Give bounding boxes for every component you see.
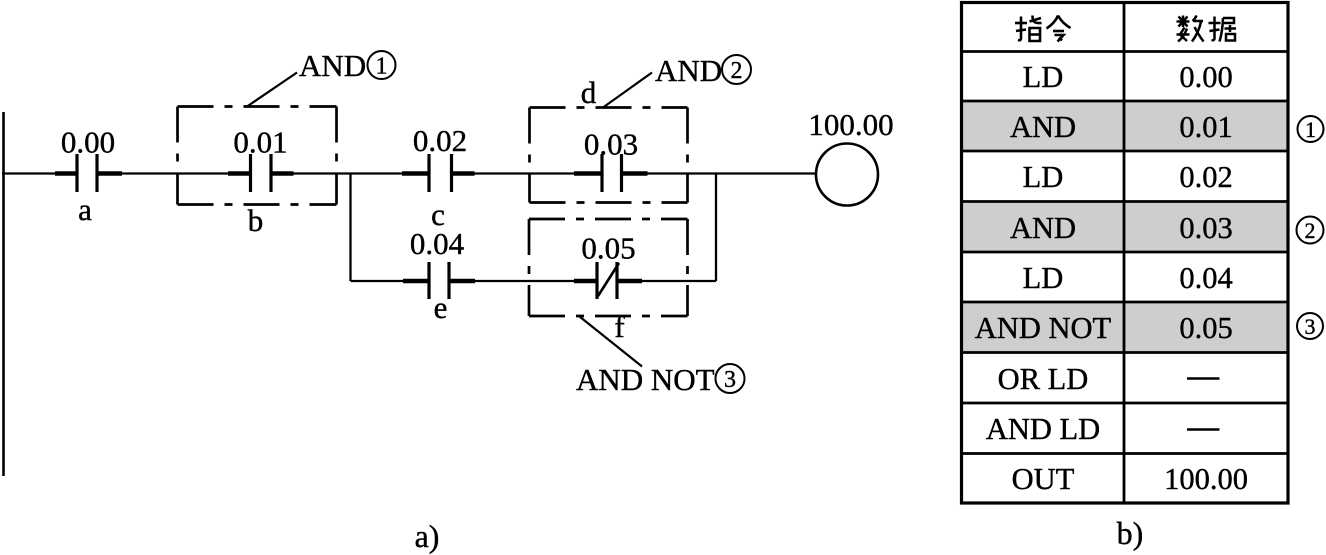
leader line AND1 (247, 73, 297, 107)
label AND1 (299, 48, 396, 83)
contact e (0.04) (403, 226, 475, 325)
svg-text:0.04: 0.04 (410, 226, 465, 261)
svg-text:AND: AND (655, 53, 722, 88)
caption a) (415, 518, 440, 554)
contact a (0.00) (55, 125, 122, 228)
dashed box AND1 around contact b (178, 107, 337, 205)
wire branch bottom segment 2 (449, 280, 597, 282)
svg-text:AND: AND (1010, 211, 1076, 245)
wire main rung segment 5 to coil (622, 172, 818, 174)
svg-text:b: b (248, 203, 264, 238)
wire branch vertical left (349, 174, 351, 282)
dashed box AND2 around contact d (530, 108, 688, 203)
table row AND 0.01 (1010, 110, 1233, 144)
svg-text:0.01: 0.01 (233, 125, 287, 160)
label AND NOT 3 (576, 362, 745, 397)
table shaded row AND NOT 0.05 (963, 303, 1287, 351)
svg-text:AND: AND (1010, 110, 1076, 144)
svg-text:100.00: 100.00 (808, 107, 893, 142)
svg-text:AND LD: AND LD (986, 412, 1100, 446)
svg-text:0.05: 0.05 (1179, 311, 1232, 345)
wire main rung segment 3 (271, 172, 429, 174)
svg-text:3: 3 (1305, 314, 1316, 339)
svg-text:OUT: OUT (1012, 462, 1075, 496)
wire branch vertical right (715, 174, 717, 282)
svg-text:LD: LD (1023, 60, 1064, 94)
svg-text:0.00: 0.00 (1179, 60, 1232, 94)
leader line AND NOT 3 (580, 317, 643, 367)
svg-text:0.01: 0.01 (1179, 110, 1232, 144)
svg-text:f: f (614, 309, 625, 344)
dashed box AND NOT 3 around contact f (529, 219, 688, 316)
svg-text:1: 1 (376, 54, 388, 80)
wire main rung segment 1 (2, 172, 77, 174)
svg-text:2: 2 (731, 58, 743, 84)
svg-text:a: a (78, 192, 92, 227)
svg-text:0.03: 0.03 (584, 127, 638, 162)
circled 2 beside table (1297, 217, 1324, 244)
table row LD 0.02 (1023, 160, 1233, 194)
caption b) (1117, 515, 1144, 551)
contact b (0.01) (228, 125, 294, 239)
svg-text:0.00: 0.00 (61, 125, 115, 160)
table shaded row AND 0.03 (963, 203, 1287, 251)
svg-text:100.00: 100.00 (1164, 462, 1248, 496)
table shaded row AND 0.01 (963, 102, 1287, 150)
table column divider (1123, 3, 1126, 504)
table row lines (962, 52, 1289, 454)
svg-text:3: 3 (724, 367, 736, 393)
svg-text:0.03: 0.03 (1179, 211, 1232, 245)
svg-text:LD: LD (1023, 261, 1064, 295)
svg-text:0.04: 0.04 (1179, 261, 1232, 295)
wire main rung segment 4 (452, 172, 603, 174)
svg-text:0.05: 0.05 (581, 231, 635, 266)
header hanzi ju (据) (1209, 17, 1237, 42)
header hanzi zhi (指) (1015, 16, 1042, 42)
circled 1 beside table (1298, 116, 1324, 142)
label AND2 (655, 53, 751, 88)
svg-text:e: e (434, 290, 448, 325)
table row LD 0.04 (1023, 261, 1233, 295)
svg-text:b): b) (1117, 515, 1144, 551)
table row AND 0.03 (1010, 211, 1233, 245)
svg-text:LD: LD (1023, 160, 1064, 194)
svg-text:2: 2 (1305, 218, 1316, 243)
table row OR LD dash (998, 362, 1220, 396)
table outer border (962, 3, 1289, 504)
contact d (0.03) (574, 75, 648, 192)
table row AND NOT 0.05 (975, 311, 1233, 345)
coil 100.00 (808, 107, 893, 206)
circled 3 beside table (1297, 313, 1323, 339)
svg-text:a): a) (415, 518, 440, 554)
wire main rung segment 2 (97, 172, 251, 174)
wire branch bottom segment 1 (351, 280, 430, 282)
svg-text:0.02: 0.02 (1179, 160, 1232, 194)
table row LD 0.00 (1023, 60, 1233, 94)
svg-text:1: 1 (1305, 117, 1316, 142)
wire branch bottom segment 3 (617, 280, 716, 282)
svg-text:AND NOT: AND NOT (576, 362, 715, 397)
left power rail (2, 112, 5, 476)
svg-text:0.02: 0.02 (413, 123, 467, 158)
svg-text:AND NOT: AND NOT (975, 311, 1112, 345)
header hanzi shu (数) (1177, 16, 1204, 42)
svg-text:OR LD: OR LD (998, 362, 1089, 396)
table row OUT 100.00 (1012, 462, 1248, 496)
header hanzi ling (令) (1047, 16, 1071, 42)
contact c (0.02) (402, 123, 475, 232)
svg-text:d: d (581, 75, 597, 110)
leader line AND2 (603, 73, 652, 108)
table row AND LD dash (986, 412, 1220, 446)
svg-text:AND: AND (299, 48, 366, 83)
contact f NC (0.05) (574, 231, 642, 345)
